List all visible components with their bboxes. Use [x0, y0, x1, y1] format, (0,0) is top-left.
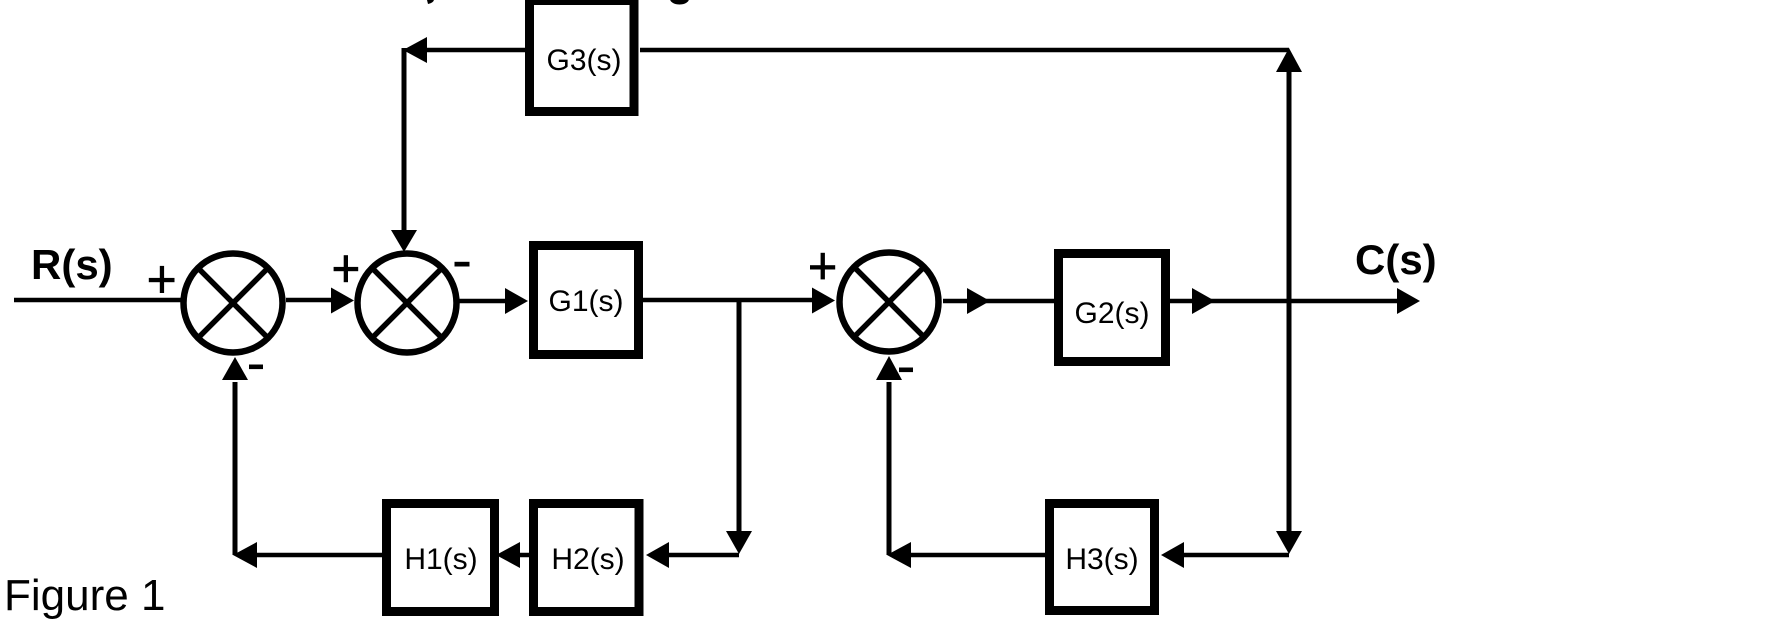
summing junction S3 — [840, 253, 939, 352]
wire S3 to block G2 with mid arrowhead — [943, 288, 1054, 314]
block H1 — [387, 504, 495, 612]
plus sign at S2 input — [334, 255, 359, 282]
svg-text:Figure 1: Figure 1 — [4, 571, 165, 620]
block G1 — [534, 246, 639, 355]
block G2 — [1059, 254, 1166, 362]
wire S1 to summing junction S2 with arrowhead — [286, 288, 354, 314]
block G3 — [530, 1, 635, 112]
minus sign at S3 lower input — [899, 368, 913, 373]
node C(s) output label — [1355, 236, 1437, 283]
wire S2 to block G1 with arrowhead — [459, 288, 528, 314]
summing junction S1 — [184, 254, 283, 353]
cut-off comma glyph remnant at top — [427, 0, 434, 4]
wire input R(s) to summing junction S1 — [14, 298, 183, 303]
svg-text:R(s): R(s) — [31, 241, 113, 288]
summing junction S2 — [358, 254, 457, 353]
plus sign at S1 input — [149, 266, 175, 293]
svg-text:G1(s): G1(s) — [549, 285, 624, 318]
wire H1 to corner below S1 with arrowhead — [233, 542, 382, 568]
node R(s) input label — [31, 241, 113, 288]
svg-text:H2(s): H2(s) — [551, 543, 624, 576]
wire corner up into S3 with arrowhead — [876, 356, 902, 555]
wire bottom feedback from T2 corner to block H3 with arrowhead — [1161, 542, 1289, 568]
wire corner up into S1 with arrowhead — [222, 357, 248, 555]
node takeoff T1 after G1, wire down to feedback line — [726, 300, 752, 554]
svg-text:H3(s): H3(s) — [1065, 543, 1138, 576]
node takeoff T2 vertical wire with up arrowhead at top and down arrowhead at bottom — [1276, 48, 1302, 554]
cut-off letter g descender remnant at top — [670, 0, 689, 5]
block H2 — [534, 504, 640, 612]
wire corner down into S2 with arrowhead — [391, 48, 417, 252]
wire G3 output to corner above S2 with arrowhead — [403, 37, 525, 63]
wire G2 to output C(s) with mid arrowhead and end arrowhead — [1170, 288, 1420, 314]
block H3 — [1050, 504, 1155, 611]
minus sign at S1 lower input — [249, 365, 263, 370]
svg-text:G3(s): G3(s) — [547, 44, 622, 77]
wire H2 to block H1 with arrowhead — [496, 542, 529, 568]
wire H3 to corner below S3 with arrowhead — [887, 542, 1045, 568]
svg-text:G2(s): G2(s) — [1075, 297, 1150, 330]
svg-text:H1(s): H1(s) — [404, 543, 477, 576]
plus sign at S3 input — [810, 253, 835, 280]
wire feedback corner T1 to block H2 with arrowhead — [646, 542, 739, 568]
minus sign at S2 upper input — [455, 262, 470, 267]
wire top feedback from T2 to block G3 — [640, 48, 1289, 53]
wire G1 to summing junction S3 with arrowhead — [643, 288, 835, 314]
svg-text:C(s): C(s) — [1355, 236, 1437, 283]
caption Figure 1 — [4, 571, 165, 620]
